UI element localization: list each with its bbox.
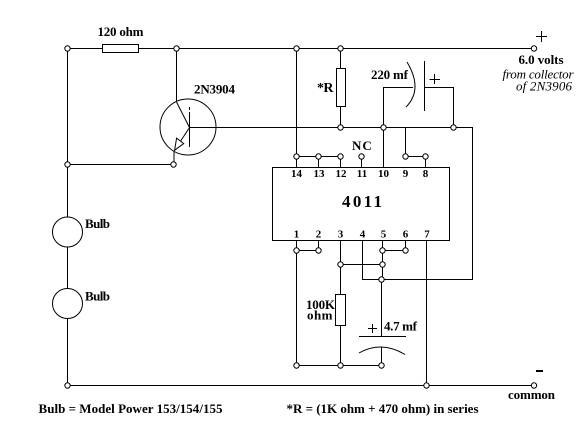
svg-text:Bulb = Model Power 153/154/155: Bulb = Model Power 153/154/155 [39,401,224,416]
svg-text:*R = (1K ohm + 470 ohm) in ser: *R = (1K ohm + 470 ohm) in series [287,401,479,416]
svg-text:8: 8 [423,168,429,180]
svg-text:4.7 mf: 4.7 mf [384,319,418,334]
svg-text:10: 10 [378,168,390,180]
svg-text:2N3904: 2N3904 [194,82,236,97]
svg-text:12: 12 [336,168,348,180]
svg-text:Bulb: Bulb [85,289,110,304]
svg-text:Bulb: Bulb [85,216,110,231]
svg-text:6.0 volts: 6.0 volts [519,52,564,67]
svg-text:2: 2 [316,229,322,241]
svg-text:11: 11 [357,168,367,180]
svg-text:4: 4 [360,229,366,241]
svg-text:6: 6 [403,229,409,241]
svg-text:9: 9 [403,168,409,180]
svg-text:220 mf: 220 mf [371,67,409,82]
svg-text:1: 1 [294,229,300,241]
svg-text:of 2N3906: of 2N3906 [516,79,573,94]
svg-text:14: 14 [291,168,303,180]
svg-text:7: 7 [424,229,430,241]
svg-text:13: 13 [314,168,326,180]
svg-text:120 ohm: 120 ohm [98,24,144,39]
svg-text:common: common [508,387,556,402]
svg-text:3: 3 [338,229,344,241]
svg-text:ohm: ohm [307,308,333,323]
svg-text:NC: NC [352,138,373,153]
svg-text:5: 5 [381,229,387,241]
svg-text:*R: *R [317,81,334,96]
